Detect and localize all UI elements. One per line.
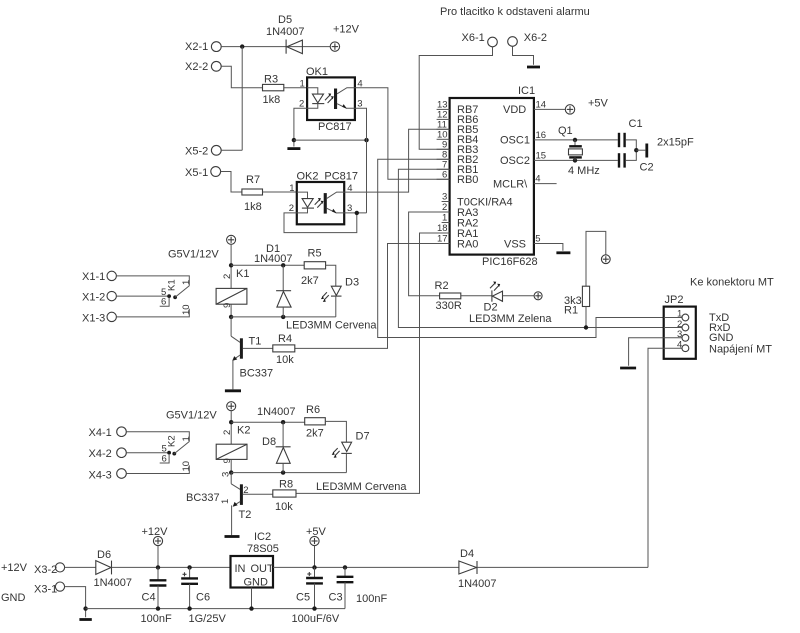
svg-text:X1-2: X1-2 — [82, 291, 105, 303]
svg-text:D7: D7 — [356, 431, 370, 443]
svg-text:2k7: 2k7 — [301, 275, 319, 287]
wire R7 to OK2 pin1 — [263, 191, 297, 193]
svg-text:10k: 10k — [275, 501, 293, 513]
svg-text:1k8: 1k8 — [244, 201, 262, 213]
connector X4-1 — [89, 427, 127, 439]
svg-text:D2: D2 — [484, 302, 498, 314]
wire MCLR stub — [534, 183, 557, 185]
pin 6 RB0 — [437, 169, 450, 180]
wire OK2 pin2 loop to pin3 — [284, 213, 357, 233]
svg-text:X2-1: X2-1 — [185, 41, 208, 53]
svg-text:C6: C6 — [196, 592, 210, 604]
resistor R7 — [242, 174, 263, 213]
pin 7 RB1 — [437, 159, 450, 170]
ground OK1 — [287, 147, 300, 150]
transistor T1 BC337 — [231, 336, 273, 390]
transistor T2 BC337 — [186, 472, 273, 535]
wire ground bus OK1 — [294, 139, 367, 141]
svg-text:10: 10 — [181, 304, 192, 315]
svg-text:LED3MM Zelena: LED3MM Zelena — [469, 313, 552, 325]
resistor R2 330R — [435, 280, 462, 312]
svg-text:OK1: OK1 — [306, 66, 328, 78]
svg-text:D8: D8 — [262, 436, 276, 448]
supply +5V (bottom) — [306, 526, 327, 546]
node OK1 ground right — [364, 138, 368, 142]
wire K2 top branch to D8 and R6 — [231, 421, 305, 423]
wire RA0 to R4 — [295, 244, 450, 349]
connector X4-3 — [89, 469, 127, 482]
wire JP2 pin4 to D4 — [648, 348, 664, 567]
wire OK1 pin3 to ground bus — [355, 108, 367, 140]
svg-text:IN: IN — [235, 563, 246, 575]
ground X6-2 — [527, 66, 540, 69]
node D8 top — [281, 420, 285, 424]
svg-text:78S05: 78S05 — [247, 543, 279, 555]
resistor R5 2k7 — [301, 248, 326, 288]
svg-text:2: 2 — [442, 202, 447, 213]
node C6 top — [187, 565, 191, 569]
svg-text:OK2: OK2 — [297, 171, 319, 183]
svg-text:C4: C4 — [142, 592, 156, 604]
connector X6-1 — [462, 32, 498, 47]
svg-text:Ke konektoru MT: Ke konektoru MT — [690, 277, 774, 289]
svg-text:R6: R6 — [306, 404, 320, 416]
diode D3 LED3MM Cervena — [321, 277, 359, 317]
svg-text:2: 2 — [289, 203, 294, 214]
svg-text:X6-2: X6-2 — [524, 32, 547, 44]
node K2 top — [229, 420, 233, 424]
crystal Q1 4MHz — [558, 125, 600, 177]
svg-text:1N4007: 1N4007 — [458, 578, 497, 590]
resistor R3 — [263, 74, 284, 107]
connector X5-2 — [185, 145, 221, 157]
resistor R4 10k — [273, 333, 295, 366]
wire supply to K2 coil — [230, 411, 232, 445]
wire X4-2 to contact K2.5 — [126, 452, 169, 454]
svg-text:X4-3: X4-3 — [89, 470, 112, 482]
pin 12 RB6 — [437, 110, 450, 121]
svg-text:330R: 330R — [436, 300, 462, 312]
wire K2 rail to T2 collector — [230, 473, 232, 484]
wire IC2 GND to ground rail — [251, 588, 253, 609]
diode D4 1N4007 — [458, 548, 497, 590]
svg-text:BC337: BC337 — [240, 368, 274, 380]
svg-text:R3: R3 — [264, 74, 278, 86]
svg-text:100nF: 100nF — [356, 593, 387, 605]
wire JP2 pin3 to ground — [629, 338, 664, 366]
svg-text:IC1: IC1 — [518, 85, 535, 97]
svg-text:6: 6 — [162, 454, 167, 465]
svg-text:+12V: +12V — [333, 24, 360, 36]
svg-text:+12V: +12V — [1, 562, 28, 574]
relay contact K1 — [160, 279, 192, 315]
wire X4-1 to contact K2.1 — [126, 432, 189, 442]
svg-text:D6: D6 — [97, 549, 111, 561]
connector X2-1 — [185, 41, 221, 53]
svg-text:14: 14 — [536, 100, 547, 111]
wire X2-2 to R3 — [221, 66, 262, 87]
wire X5-2 to vertical — [221, 149, 242, 151]
svg-text:4: 4 — [535, 174, 540, 185]
svg-text:RB0: RB0 — [457, 174, 478, 186]
connector X2-2 — [185, 61, 221, 73]
svg-text:OSC1: OSC1 — [500, 135, 530, 147]
connector X4-2 — [89, 448, 127, 460]
svg-text:1N4007: 1N4007 — [94, 577, 133, 589]
svg-text:GND: GND — [1, 592, 26, 604]
connector X1-1 — [82, 271, 116, 283]
wire RA3 to R2 — [409, 212, 450, 296]
wire X1-1 to contact K1.1 — [116, 276, 189, 286]
svg-text:LED3MM Cervena: LED3MM Cervena — [316, 481, 407, 493]
svg-text:6: 6 — [442, 169, 447, 180]
diode D1 1N4007 flyback — [254, 243, 293, 317]
pin 17 RA0 — [437, 234, 450, 245]
node C5 top — [312, 565, 316, 569]
svg-text:2: 2 — [222, 274, 233, 279]
op-amp OK2 optocoupler PC817 — [297, 171, 359, 225]
svg-text:1k8: 1k8 — [263, 94, 281, 106]
svg-text:1: 1 — [181, 280, 192, 285]
svg-text:BC337: BC337 — [186, 492, 220, 504]
wire X4-3 to contact K2.10 — [126, 465, 189, 473]
svg-text:2x15pF: 2x15pF — [657, 136, 694, 148]
wire K2 bottom rail — [231, 472, 346, 474]
pin 1 RA2 — [442, 213, 450, 224]
svg-text:R2: R2 — [435, 280, 449, 292]
wire supply to K1 coil — [230, 244, 232, 288]
wire D2 to supply — [503, 295, 535, 297]
svg-text:R4: R4 — [278, 333, 292, 345]
wire K2 coil to rail — [230, 459, 232, 472]
wire K1 coil to rail — [230, 304, 232, 317]
svg-text:JP2: JP2 — [665, 294, 684, 306]
svg-text:Napájení MT: Napájení MT — [709, 344, 772, 356]
node C4 bottom — [156, 606, 160, 610]
node K1 rail left — [229, 315, 233, 319]
svg-text:4 MHz: 4 MHz — [568, 165, 600, 177]
node R1/RxD — [584, 325, 588, 329]
node C1/C2 — [634, 148, 638, 152]
wire X6-1 to PIC RB3 — [419, 47, 492, 150]
wire OSC1 to C1 — [534, 139, 618, 141]
svg-text:X1-1: X1-1 — [82, 271, 105, 283]
wire X3-2 to D6 — [65, 566, 96, 568]
svg-text:C3: C3 — [329, 592, 343, 604]
svg-text:100nF: 100nF — [141, 613, 172, 625]
svg-text:3: 3 — [221, 472, 232, 477]
svg-text:X3-2: X3-2 — [34, 564, 57, 576]
connector X6-2 — [508, 32, 547, 46]
supply +12V (bottom) — [142, 526, 169, 546]
connector X3-2 — [34, 563, 65, 576]
svg-text:R8: R8 — [279, 479, 293, 491]
svg-text:X3-1: X3-1 — [34, 584, 57, 596]
svg-text:G5V1/12V: G5V1/12V — [168, 249, 219, 261]
svg-text:3: 3 — [677, 329, 682, 340]
wire R6 to D7 — [325, 421, 346, 442]
ground T1 — [225, 389, 241, 392]
svg-text:X5-2: X5-2 — [185, 146, 208, 158]
node C6 bottom — [187, 606, 191, 610]
svg-text:1G/25V: 1G/25V — [189, 613, 227, 625]
wire OK2 pin3 to ground vertical — [344, 212, 366, 214]
svg-text:VSS: VSS — [504, 238, 526, 250]
wire OK1 pin4 to PIC RB0 — [355, 88, 450, 180]
supply + (K2 coil) — [227, 402, 236, 411]
svg-text:3: 3 — [442, 192, 447, 203]
svg-text:X4-2: X4-2 — [89, 448, 112, 460]
svg-text:Q1: Q1 — [558, 125, 573, 137]
svg-text:OSC2: OSC2 — [500, 155, 530, 167]
ground VSS — [556, 251, 570, 254]
svg-text:X1-3: X1-3 — [82, 312, 105, 324]
svg-text:D5: D5 — [278, 14, 292, 26]
capacitor C5 100uF/6V electrolytic — [292, 567, 340, 625]
svg-text:17: 17 — [437, 234, 448, 245]
svg-text:2: 2 — [222, 430, 233, 435]
supply +5V (VDD) — [565, 98, 608, 115]
supply + (K1 coil) — [227, 235, 236, 244]
svg-text:1N4007: 1N4007 — [266, 26, 305, 38]
svg-text:C5: C5 — [296, 592, 310, 604]
wire ground bus down to OK2 pin3 — [366, 140, 368, 213]
svg-text:MCLR\: MCLR\ — [493, 178, 528, 190]
node ground rail left — [83, 606, 87, 610]
relay K2 coil — [216, 425, 250, 464]
node C3 top — [343, 565, 347, 569]
pin 9 RB3 — [437, 139, 450, 150]
regulator IC2 78S05 — [231, 531, 279, 589]
capacitor C4 100nF — [141, 567, 172, 625]
wire X2-1 to D5 node — [221, 46, 330, 48]
capacitor C1 — [619, 118, 643, 147]
pin 13 RB7 — [437, 100, 450, 111]
connector X3-1 — [34, 582, 65, 596]
wire node to crystal ground — [636, 149, 645, 151]
svg-text:T1: T1 — [249, 336, 262, 348]
wire X3-1 to ground rail — [65, 587, 86, 618]
svg-text:1: 1 — [442, 213, 447, 224]
svg-text:K2: K2 — [237, 425, 250, 437]
node C4 top — [156, 565, 160, 569]
wire X1-3 to contact K1.10 — [116, 309, 189, 317]
diode D7 LED3MM Cervena — [332, 431, 370, 473]
svg-text:PC817: PC817 — [324, 171, 358, 183]
pin 2 RA3 — [437, 202, 450, 213]
node IC2 GND bottom — [249, 606, 253, 610]
svg-text:6: 6 — [161, 297, 166, 308]
svg-text:X5-1: X5-1 — [185, 167, 208, 179]
svg-text:2: 2 — [299, 98, 304, 109]
node K1 top — [229, 263, 233, 267]
resistor R6 2k7 — [305, 404, 326, 439]
svg-text:+5V: +5V — [306, 526, 327, 538]
svg-text:D4: D4 — [460, 548, 474, 560]
wire VDD to +5V — [534, 108, 566, 110]
diode D8 1N4007 flyback — [257, 406, 296, 473]
wire R2 to D2 — [461, 295, 492, 297]
svg-text:1: 1 — [220, 499, 231, 504]
svg-text:R5: R5 — [308, 248, 322, 260]
wire D4 to JP2 pin4 vertical — [477, 566, 648, 568]
svg-text:10k: 10k — [276, 354, 294, 366]
svg-text:16: 16 — [536, 130, 547, 141]
svg-text:G5V1/12V: G5V1/12V — [166, 410, 217, 422]
svg-text:5: 5 — [535, 234, 540, 245]
svg-text:2: 2 — [243, 485, 248, 496]
node D8 bottom — [281, 470, 285, 474]
pin 3 T0CKI/RA4 — [442, 192, 450, 203]
wire X1-2 to contact K1.5 — [116, 295, 169, 297]
ground JP2 — [620, 367, 636, 370]
supply +12V (top) — [330, 24, 359, 52]
wire X5-1 to R7 — [221, 172, 242, 193]
svg-text:PC817: PC817 — [318, 121, 352, 133]
op-amp OK1 optocoupler PC817 — [306, 66, 355, 133]
svg-text:2k7: 2k7 — [306, 428, 324, 440]
wire RA1 to R8 — [296, 233, 450, 493]
wire IC2 OUT +5V rail to D4 — [273, 566, 459, 568]
capacitor C3 100nF — [329, 567, 388, 608]
svg-text:X2-2: X2-2 — [185, 61, 208, 73]
svg-text:18: 18 — [437, 223, 448, 234]
capacitor C2 — [619, 153, 654, 173]
svg-text:3: 3 — [347, 203, 352, 214]
supply + (R1 pull-up) — [601, 255, 610, 264]
svg-text:C2: C2 — [640, 162, 654, 174]
node D1 top — [281, 263, 285, 267]
svg-text:K1: K1 — [167, 279, 178, 291]
wire +5V supply to rail — [314, 546, 316, 568]
svg-text:OUT: OUT — [251, 563, 275, 575]
wire +12V supply to rail — [157, 546, 159, 568]
wire OSC2 to C2 — [534, 159, 618, 161]
wire OK1 pin2 to ground — [294, 108, 307, 146]
resistor R8 10k — [273, 479, 296, 514]
svg-text:4: 4 — [677, 339, 682, 350]
svg-text:IC2: IC2 — [254, 531, 271, 543]
svg-text:K1: K1 — [236, 268, 249, 280]
svg-text:D3: D3 — [345, 277, 359, 289]
connector X1-3 — [82, 312, 116, 324]
svg-text:15: 15 — [536, 150, 547, 161]
svg-text:R7: R7 — [246, 174, 260, 186]
svg-text:PIC16F628: PIC16F628 — [482, 256, 538, 268]
pin 11 RB5 — [437, 119, 450, 130]
connector JP2 — [664, 294, 696, 359]
node OK1 ground left — [292, 138, 296, 142]
node C5 bottom — [312, 606, 316, 610]
wire node to X5-2 vertical — [241, 47, 243, 151]
wire VSS to ground — [534, 244, 563, 251]
supply + (D2) — [534, 292, 542, 300]
diode D5 — [266, 14, 305, 54]
svg-text:1: 1 — [181, 436, 192, 441]
wire RB2 TxD to JP2 pin1 — [378, 159, 682, 337]
connector X1-2 — [82, 291, 116, 303]
svg-text:LED3MM Cervena: LED3MM Cervena — [286, 320, 377, 332]
node OSC1/crystal — [573, 138, 577, 142]
svg-text:1N4007: 1N4007 — [257, 406, 296, 418]
svg-text:+12V: +12V — [142, 526, 169, 538]
svg-text:T2: T2 — [239, 509, 252, 521]
svg-text:VDD: VDD — [503, 104, 526, 116]
svg-text:Pro tlacitko k odstaveni alarm: Pro tlacitko k odstaveni alarmu — [440, 6, 590, 18]
svg-text:GND: GND — [709, 332, 734, 344]
ground crystal — [645, 144, 648, 158]
capacitor C6 1G/25V electrolytic — [181, 567, 226, 625]
diode D2 LED3MM Zelena — [469, 282, 552, 326]
svg-text:3: 3 — [357, 98, 362, 109]
node K2 rail left — [229, 470, 233, 474]
wire RB1 RxD to JP2 pin2 — [398, 169, 682, 327]
wire +12V rail to IC2 IN — [112, 566, 231, 568]
connector X5-1 — [185, 167, 221, 179]
svg-text:1: 1 — [300, 79, 305, 90]
wire ground rail — [86, 608, 345, 610]
wire R3 to OK1 pin1 — [284, 87, 307, 89]
svg-text:100uF/6V: 100uF/6V — [292, 613, 340, 625]
node D1 bottom — [281, 315, 285, 319]
IC1 PIC16F628 — [450, 85, 538, 268]
wire K1 bottom rail — [231, 316, 336, 318]
svg-text:+5V: +5V — [588, 98, 609, 110]
svg-text:C1: C1 — [629, 118, 643, 130]
node OSC2/crystal — [573, 158, 577, 162]
ground X3-1 — [79, 618, 91, 621]
resistor R1 3k3 pull-up — [564, 231, 606, 327]
svg-text:RA0: RA0 — [457, 239, 478, 251]
relay K1 coil — [216, 268, 249, 308]
svg-text:GND: GND — [244, 577, 269, 589]
pin 8 RB2 — [437, 149, 450, 160]
svg-text:X6-1: X6-1 — [462, 32, 485, 44]
ground T2 — [225, 535, 240, 538]
svg-text:1: 1 — [289, 183, 294, 194]
pin 18 RA1 — [437, 223, 450, 234]
diode D6 1N4007 — [94, 549, 133, 589]
relay contact K2 — [160, 435, 192, 471]
wire X6-2 to ground — [513, 46, 534, 65]
node OK2 pin3 junction — [355, 211, 359, 215]
node X2-1/D5 junction — [240, 44, 244, 48]
wire K1 top branch to D1 and R5 — [231, 264, 304, 266]
wire K1 rail to T1 collector — [230, 317, 232, 336]
svg-text:R1: R1 — [564, 305, 578, 317]
svg-text:K2: K2 — [167, 435, 178, 447]
wire R5 to D3 — [326, 265, 336, 286]
svg-text:10: 10 — [181, 461, 192, 472]
svg-text:X4-1: X4-1 — [89, 427, 112, 439]
svg-text:1N4007: 1N4007 — [254, 253, 293, 265]
pin 10 RB4 — [437, 129, 450, 140]
wire OK2 pin4 to PIC RB5 — [344, 129, 449, 192]
wire C1 to ground node — [626, 140, 637, 161]
